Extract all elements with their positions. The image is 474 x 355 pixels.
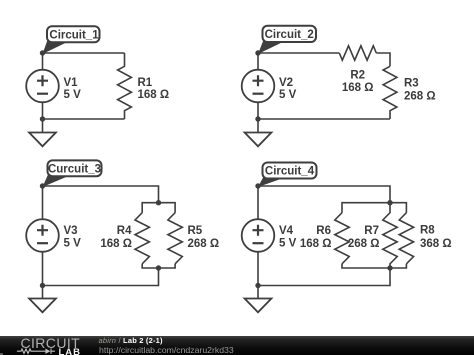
resistor R7 <box>383 203 397 268</box>
svg-text:268 Ω: 268 Ω <box>348 238 380 250</box>
svg-text:5 V: 5 V <box>64 237 82 249</box>
voltage source V3 <box>26 219 59 252</box>
ground C1 <box>29 119 56 146</box>
svg-text:R7: R7 <box>364 225 379 237</box>
ground C2 <box>245 119 272 146</box>
svg-text:V3: V3 <box>64 225 78 237</box>
resistor R1 <box>118 53 132 119</box>
svg-text:Circuit_1: Circuit_1 <box>49 29 99 41</box>
wire V2 bottom lead <box>257 102 259 119</box>
svg-text:V2: V2 <box>279 77 293 89</box>
label bubble Circuit_2 <box>258 26 316 54</box>
svg-text:Circuit_4: Circuit_4 <box>265 166 315 178</box>
node junction top C1 <box>40 50 45 55</box>
node junction bottom C1 <box>40 116 45 121</box>
corner chip <box>0 353 3 355</box>
voltage source V4 <box>242 219 275 252</box>
ground C3 <box>29 286 56 313</box>
node junction bottom C3 <box>40 283 45 288</box>
svg-text:5 V: 5 V <box>64 89 82 101</box>
label bubble Circuit_1 <box>43 26 100 54</box>
svg-text:R2: R2 <box>350 70 365 82</box>
wire bottom C1 horizontal <box>43 118 125 120</box>
svg-text:R6: R6 <box>316 225 331 237</box>
wire bottom C4 horizontal <box>258 268 390 286</box>
wire top C3 horizontal <box>43 186 159 203</box>
resistor R8 <box>399 213 413 264</box>
svg-text:168 Ω: 168 Ω <box>300 238 332 250</box>
wire R2 to corner <box>376 53 390 66</box>
svg-text:368 Ω: 368 Ω <box>420 238 452 250</box>
svg-text:268 Ω: 268 Ω <box>404 90 436 102</box>
svg-text:Curcuit_3: Curcuit_3 <box>48 163 101 175</box>
svg-text:168 Ω: 168 Ω <box>100 238 132 250</box>
node lens bottom C4 <box>387 265 392 270</box>
footer url line <box>99 345 234 355</box>
svg-text:168 Ω: 168 Ω <box>138 89 170 101</box>
svg-text:R3: R3 <box>404 77 419 89</box>
svg-text:5 V: 5 V <box>279 237 297 249</box>
svg-text:Circuit_2: Circuit_2 <box>265 29 314 41</box>
label bubble Circuit_4 <box>258 163 317 188</box>
ground C4 <box>245 286 272 313</box>
svg-text:R5: R5 <box>188 225 203 237</box>
node lens top C4 <box>387 200 392 205</box>
node junction top C4 <box>255 183 260 188</box>
wire V2 top lead <box>257 53 259 70</box>
wire V1 top lead <box>42 53 44 70</box>
wire V1 bottom lead <box>42 102 44 119</box>
resistor R3 <box>383 66 397 119</box>
wire bottom C3 horizontal <box>43 268 159 286</box>
wire V3 top lead <box>42 186 44 219</box>
wire bottom C2 horizontal <box>258 118 390 120</box>
resistor R2 <box>339 46 376 60</box>
wire V4 top lead <box>257 186 259 219</box>
logo waveform with resistor and diode <box>0 336 95 355</box>
svg-text:5 V: 5 V <box>279 89 297 101</box>
svg-text:R4: R4 <box>117 225 132 237</box>
wire V3 bottom lead <box>42 252 44 286</box>
svg-text:V1: V1 <box>64 77 79 89</box>
node junction bottom C2 <box>255 116 260 121</box>
node junction top C3 <box>40 183 45 188</box>
footer title line <box>99 336 163 345</box>
svg-text:168 Ω: 168 Ω <box>342 82 374 94</box>
wire lens bottom bar C4 <box>342 264 406 268</box>
wire lens bottom bar C3 <box>142 264 175 268</box>
svg-text:R8: R8 <box>420 225 435 237</box>
footer bar <box>0 336 474 355</box>
resistor R6 <box>335 213 349 264</box>
node junction bottom C4 <box>255 283 260 288</box>
wire lens top bar C3 <box>142 203 175 213</box>
svg-text:V4: V4 <box>279 225 294 237</box>
label bubble Curcuit_3 <box>43 160 102 187</box>
voltage source V2 <box>242 70 275 103</box>
logo wordmark CIRCUIT <box>21 335 81 351</box>
wire V4 bottom lead <box>257 252 259 286</box>
resistor R4 <box>135 213 149 264</box>
node lens bottom C3 <box>156 265 161 270</box>
wire top C4 horizontal <box>258 186 390 203</box>
svg-text:268 Ω: 268 Ω <box>188 238 220 250</box>
wire top C2 horizontal <box>258 52 339 54</box>
node lens top C3 <box>156 200 161 205</box>
node junction top C2 <box>255 50 260 55</box>
resistor R5 <box>168 213 182 264</box>
voltage source V1 <box>26 70 59 103</box>
wire lens top bar C4 <box>342 203 406 213</box>
svg-text:R1: R1 <box>138 77 153 89</box>
wire top C1 horizontal <box>43 52 125 54</box>
logo wordmark LAB <box>59 347 82 355</box>
